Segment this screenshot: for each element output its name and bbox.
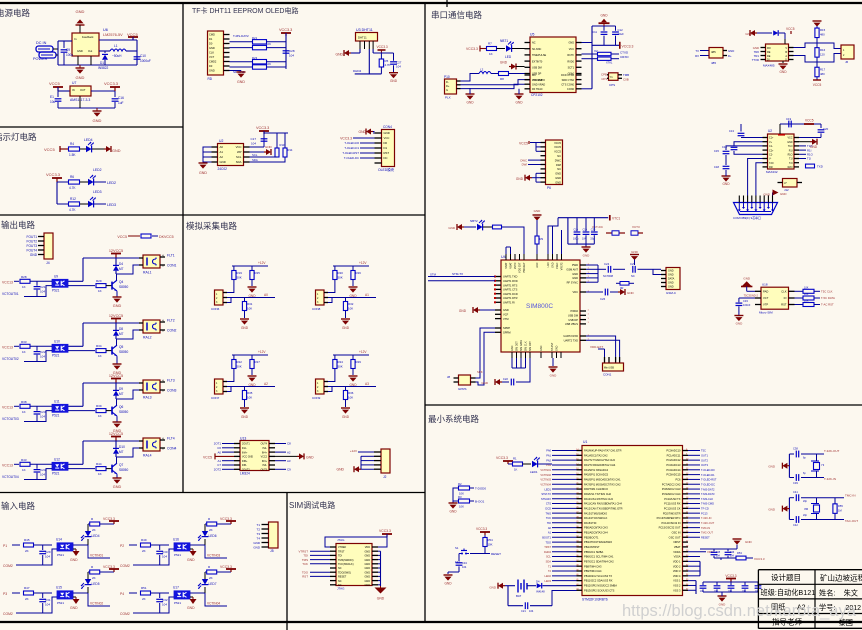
- wire led1 to pa8: [538, 463, 552, 465]
- svg-text:RD: RD: [208, 77, 213, 81]
- STM32 left pin row 7: [577, 478, 583, 480]
- svg-text:T-32K-OUT: T-32K-OUT: [824, 449, 840, 453]
- pullup resistor R52 2K: [207, 570, 217, 574]
- svg-text:SCL: SCL: [546, 555, 552, 559]
- diode D4 IN4148: [537, 583, 542, 588]
- OLED pin 3: [375, 142, 382, 144]
- divider resistor R20: [334, 266, 336, 270]
- MAX232 right pin 10: [794, 162, 799, 164]
- svg-text:IN3+: IN3+: [262, 460, 268, 463]
- power label VCC5 bottom of chain: [813, 79, 821, 81]
- usb pins wires: [457, 80, 461, 82]
- svg-text:OUT3: OUT3: [261, 469, 268, 472]
- gnd arrow 8M: [787, 508, 789, 510]
- P6 pin 6: [541, 164, 546, 166]
- svg-text:T5C3GND-2: T5C3GND-2: [744, 294, 759, 298]
- svg-text:PA3/T3 RDADCB/TA2 CH4: PA3/T3 RDADCB/TA2 CH4: [584, 463, 616, 467]
- SIM800C top pin 21: [536, 254, 538, 260]
- svg-text:R25: R25: [255, 271, 261, 275]
- svg-text:VCTIN04: VCTIN04: [540, 482, 551, 486]
- flyback diode D8 M7: [115, 323, 117, 330]
- svg-text:8M: 8M: [804, 507, 808, 511]
- svg-text:PWD: PWD: [572, 263, 578, 267]
- svg-text:R31: R31: [247, 302, 253, 306]
- vbat cap C22: [576, 218, 578, 232]
- STM32 right pin row 21: [683, 546, 689, 548]
- svg-text:R39: R39: [96, 404, 102, 408]
- svg-text:T-OLED-D0: T-OLED-D0: [344, 141, 359, 145]
- svg-text:2K: 2K: [92, 576, 96, 580]
- svg-text:SPRM: SPRM: [503, 331, 511, 335]
- opto emitter to ground: [73, 596, 76, 598]
- svg-text:LED3: LED3: [107, 203, 116, 207]
- svg-text:PC4/ADC14: PC4/ADC14: [666, 468, 681, 472]
- pin 4 of J5: [262, 537, 269, 539]
- svg-text:SDA: SDA: [546, 560, 552, 564]
- SIM800C left pin 5: [495, 293, 501, 295]
- svg-text:TDI: TDI: [547, 521, 551, 525]
- svg-text:B-OO1: B-OO1: [475, 500, 485, 504]
- svg-text:R51: R51: [141, 586, 147, 590]
- svg-text:S8050: S8050: [119, 468, 128, 472]
- svg-text:OLED模块: OLED模块: [378, 167, 395, 172]
- svg-text:CON1: CON1: [167, 264, 177, 268]
- svg-text:Q4: Q4: [119, 280, 123, 284]
- svg-text:VCC3.3: VCC3.3: [754, 557, 765, 561]
- sensor connector CON8: [316, 290, 325, 305]
- P6 pin 10: [541, 181, 546, 183]
- flyback diode D10 M7: [115, 441, 117, 448]
- svg-text:R26: R26: [356, 271, 362, 275]
- svg-text:STM-RX: STM-RX: [541, 497, 551, 501]
- svg-text:MAX232: MAX232: [766, 170, 778, 174]
- st ant gnd: [552, 358, 554, 366]
- vcc rail unit 4: [83, 440, 143, 442]
- 24C02 right pin 7: [244, 156, 250, 158]
- svg-text:ADC: ADC: [536, 262, 539, 267]
- left riser to opto collector: [82, 441, 84, 464]
- svg-text:RF TRA0: RF TRA0: [532, 88, 543, 91]
- ground below R31: [240, 318, 249, 320]
- svg-text:GND: GND: [253, 541, 261, 545]
- svg-text:A3: A3: [365, 382, 369, 386]
- svg-text:2K: 2K: [92, 528, 96, 532]
- DB9 pin 3: [747, 196, 749, 203]
- svg-text:GND: GND: [449, 510, 457, 514]
- svg-text:GND: GND: [241, 326, 249, 330]
- svg-text:GND: GND: [459, 309, 467, 313]
- CP2102 left pin 4: [525, 60, 531, 62]
- STM32 left pin row 14: [577, 512, 583, 514]
- crystal Y3 32.768k: [814, 463, 820, 470]
- ground cp2102 bottom: [515, 93, 524, 95]
- svg-text:GND: GND: [209, 46, 215, 50]
- svg-text:A1: A1: [548, 531, 552, 535]
- svg-text:C32: C32: [162, 598, 168, 602]
- svg-text:PC11/US3 RX: PC11/US3 RX: [664, 502, 681, 506]
- top rail +12V unit CON7: [232, 354, 268, 356]
- svg-text:2K: 2K: [209, 528, 213, 532]
- main crystal circuit 8M right: [788, 498, 790, 520]
- top rail +12V unit CON8: [333, 265, 369, 267]
- cap C45 vdd: [713, 549, 715, 551]
- pullup resistor R50 2K: [207, 522, 217, 526]
- svg-text:PC2/ADC12: PC2/ADC12: [666, 458, 681, 462]
- svg-text:LED4: LED4: [84, 138, 93, 142]
- LM324 vcc2 to gnd arrow: [275, 455, 297, 457]
- svg-text:VCTIN02: VCTIN02: [540, 473, 551, 477]
- left leg vbat: [567, 218, 569, 244]
- svg-text:1K: 1K: [22, 285, 26, 289]
- wire to opto input: [151, 592, 170, 594]
- base resistor R39 1K: [68, 410, 95, 412]
- svg-text:CMD2: CMD2: [209, 60, 217, 64]
- svg-text:NRST: NRST: [673, 540, 680, 544]
- svg-text:GND: GND: [220, 160, 226, 164]
- SIM800C left pin 12: [495, 331, 501, 333]
- DB9 pin 2: [743, 196, 745, 203]
- svg-text:D1: D1: [100, 61, 104, 65]
- svg-text:RESET: RESET: [701, 535, 710, 539]
- wire relay coil to collector node: [116, 265, 139, 274]
- svg-text:S8050: S8050: [119, 410, 128, 414]
- svg-text:D0: D0: [384, 141, 388, 145]
- svg-text:LED2: LED2: [93, 168, 102, 172]
- STM32 right pin row 26: [683, 570, 689, 572]
- svg-text:DWI: DWI: [522, 163, 528, 167]
- svg-text:PC8/ADC2 CH3: PC8/ADC2 CH3: [662, 487, 681, 491]
- svg-text:T-OLED-D1: T-OLED-D1: [701, 473, 715, 477]
- STM32 left pin row 23: [577, 556, 583, 558]
- svg-text:GND: GND: [241, 415, 249, 419]
- pullup resistor pair R23 R24: [230, 61, 253, 63]
- STM32 right pin row 22: [683, 551, 689, 553]
- svg-text:PC12/US3 CK: PC12/US3 CK: [664, 506, 681, 510]
- pin 2 of J4: [38, 240, 44, 242]
- wire LED4 to GND: [92, 148, 104, 150]
- svg-text:1K: 1K: [98, 289, 102, 293]
- wire led to pullup resistor: [204, 572, 206, 579]
- svg-text:4.7K: 4.7K: [69, 208, 76, 212]
- svg-text:A2: A2: [220, 155, 224, 159]
- svg-text:输入电路: 输入电路: [1, 501, 36, 511]
- svg-text:R2I: R2I: [769, 166, 773, 169]
- svg-text:T-AC RST: T-AC RST: [821, 303, 834, 307]
- svg-text:LED4: LED4: [92, 534, 100, 538]
- svg-text:IN4-: IN4-: [262, 447, 267, 450]
- svg-text:LED2: LED2: [107, 181, 116, 185]
- STM32 right pin row 6: [683, 474, 689, 476]
- wire resistor to opto pin1: [30, 463, 52, 465]
- svg-text:RAL2: RAL2: [143, 336, 152, 340]
- svg-text:TX: TX: [695, 49, 699, 53]
- STM32 right pin row 27: [683, 575, 689, 577]
- svg-text:GND: GND: [550, 374, 558, 378]
- svg-text:GND: GND: [552, 262, 555, 268]
- output net wire VCTIN02: [88, 593, 110, 606]
- svg-text:GND: GND: [668, 282, 674, 285]
- svg-text:GND: GND: [364, 576, 370, 579]
- STM32 right pin row 18: [683, 531, 689, 533]
- JTAG right pin 2: [372, 546, 378, 548]
- DB9 pin 4: [751, 196, 753, 203]
- lower resistor R32 10K: [345, 298, 347, 302]
- svg-text:U14: U14: [56, 538, 62, 542]
- svg-text:CP2102: CP2102: [531, 93, 543, 97]
- svg-text:LED7: LED7: [209, 582, 217, 586]
- svg-text:VCC3.3: VCC3.3: [379, 529, 391, 533]
- svg-text:T-OLED-RST: T-OLED-RST: [701, 478, 717, 482]
- STM32 right pin row 7: [683, 478, 689, 480]
- ground below R29: [349, 375, 358, 377]
- ground below max485: [782, 61, 784, 63]
- svg-text:RO: RO: [767, 47, 771, 50]
- svg-text:C45: C45: [716, 552, 721, 554]
- svg-text:GND: GND: [187, 606, 195, 610]
- antenna connector GSM-ANT: [666, 268, 680, 290]
- svg-text:Feedback: Feedback: [82, 35, 94, 39]
- svg-text:U4: U4: [501, 255, 506, 259]
- svg-text:VCC5: VCC5: [554, 141, 561, 145]
- svg-text:UART1 RXD: UART1 RXD: [503, 279, 518, 283]
- relay pin wires and contact labels: [139, 322, 143, 324]
- STM32 left pin row 17: [577, 527, 583, 529]
- svg-text:A1: A1: [220, 150, 224, 154]
- svg-text:U6: U6: [103, 28, 108, 32]
- STM32 left pin row 1: [577, 450, 583, 452]
- svg-text:DATA: DATA: [668, 278, 675, 281]
- svg-text:GND: GND: [466, 101, 474, 105]
- svg-text:MC: MC: [532, 74, 536, 77]
- TF pin 4: [224, 47, 230, 49]
- STM32 left pin row 6: [577, 474, 583, 476]
- SIM800C bottom pin 35: [540, 352, 542, 358]
- svg-text:GND: GND: [768, 465, 776, 469]
- MAX232 right pin 11: [794, 158, 799, 160]
- svg-text:R34: R34: [96, 344, 102, 348]
- series resistor R47 2K: [24, 591, 34, 595]
- wire U6 out to node: [99, 39, 137, 41]
- svg-text:C26: C26: [600, 297, 606, 301]
- svg-text:10K: 10K: [804, 293, 809, 296]
- svg-text:FLT1: FLT1: [167, 254, 175, 258]
- SIM800C left pin 10: [495, 318, 501, 320]
- svg-text:C10: C10: [583, 229, 588, 232]
- divider horizontal y=215: [0, 214, 425, 216]
- svg-text:R32: R32: [348, 302, 354, 306]
- svg-text:输出电路: 输出电路: [1, 220, 36, 230]
- svg-text:P3: P3: [3, 592, 7, 596]
- svg-text:Q7: Q7: [119, 463, 123, 467]
- divider horizontal y=127 power/led: [0, 126, 183, 128]
- vdd decoupling rail right of mcu: [700, 548, 737, 550]
- OLED pin 2: [375, 137, 382, 139]
- svg-text:R33: R33: [21, 340, 27, 344]
- svg-text:C21: C21: [521, 609, 526, 613]
- ground top cp2102: [601, 19, 607, 22]
- svg-text:模拟采集电路: 模拟采集电路: [186, 221, 238, 231]
- svg-text:S8050: S8050: [119, 285, 128, 289]
- svg-text:104: 104: [251, 142, 256, 146]
- svg-text:C24: C24: [40, 468, 46, 472]
- svg-text:PA15/JTDI: PA15/JTDI: [584, 521, 597, 525]
- svg-text:T-MS-DAT3: T-MS-DAT3: [701, 492, 715, 496]
- CP2102 left pin 3: [525, 54, 531, 56]
- 485 bus loop wires: [794, 43, 818, 48]
- STM32 left pin row 10: [577, 493, 583, 495]
- vcc rail unit 1: [83, 257, 143, 259]
- svg-text:GND: GND: [77, 49, 83, 53]
- svg-text:GND: GND: [70, 558, 78, 562]
- svg-text:R16: R16: [820, 48, 826, 52]
- svg-text:VCTOUT03: VCTOUT03: [2, 417, 19, 421]
- vcc rail unit 3: [83, 382, 143, 384]
- svg-text:SIM调试电路: SIM调试电路: [289, 500, 335, 510]
- svg-text:10K: 10K: [348, 396, 353, 400]
- svg-text:CON9: CON9: [312, 396, 321, 400]
- CP2102 right pin 24: [576, 66, 582, 68]
- STM32 left pin row 12: [577, 503, 583, 505]
- net label T32K OUT: [822, 453, 824, 455]
- wire battery to diode: [527, 585, 536, 587]
- svg-text:T-5C DATA: T-5C DATA: [821, 296, 835, 300]
- svg-text:CTS CON0: CTS CON0: [561, 83, 574, 86]
- capacitor C18 max232 low: [725, 160, 727, 165]
- wire U6 pin2 right: [99, 50, 110, 52]
- svg-text:DWC: DWC: [520, 158, 527, 162]
- svg-text:U3 DHT11: U3 DHT11: [356, 28, 373, 32]
- svg-text:10K: 10K: [266, 42, 271, 46]
- svg-text:104: 104: [162, 555, 167, 559]
- MAX232 right pin 16: [794, 137, 799, 139]
- STM32 right pin row 25: [683, 565, 689, 567]
- svg-text:GND: GND: [342, 415, 350, 419]
- svg-text:GND: GND: [306, 456, 314, 460]
- svg-text:10K: 10K: [804, 287, 809, 290]
- svg-text:FLT3: FLT3: [167, 379, 175, 383]
- svg-text:U13: U13: [240, 437, 246, 441]
- vcc rail unit 2: [83, 322, 143, 324]
- P6 pin 7: [541, 168, 546, 170]
- MAX232 left pin 7: [763, 162, 768, 164]
- TF pin 6: [224, 56, 230, 58]
- svg-text:NBT2: NBT2: [470, 219, 478, 223]
- emitter wire to ground: [116, 416, 118, 422]
- SIM800C right pin UART2 TXD: [580, 339, 586, 341]
- svg-text:STM32F103RBT6: STM32F103RBT6: [582, 598, 608, 602]
- LM324 right pin 8: [269, 468, 275, 470]
- lower resistor R31 10K: [244, 298, 246, 302]
- SIM800C left pin 1: [495, 276, 501, 278]
- LM324 left pin 1: [234, 443, 240, 445]
- svg-text:GSM ANT: GSM ANT: [566, 268, 578, 272]
- svg-text:VCC3.3: VCC3.3: [279, 28, 292, 32]
- sensor connector CON6: [215, 290, 224, 305]
- svg-text:2OUT1: 2OUT1: [242, 443, 250, 446]
- svg-text:VCC5: VCC5: [554, 145, 561, 149]
- svg-text:J12: J12: [784, 188, 789, 192]
- svg-text:VCC: VCC: [787, 137, 792, 140]
- SIM800C top pin 18: [514, 254, 516, 260]
- svg-text:D+: D+: [728, 54, 732, 58]
- svg-text:D+: D+: [446, 84, 450, 88]
- bottom rail AMS1117 stage: [58, 107, 115, 109]
- capacitor C12 10uF: [615, 26, 617, 31]
- relay RAL4: [143, 438, 160, 451]
- svg-text:GND: GND: [377, 597, 385, 601]
- JTAG left pin 3: [330, 550, 336, 552]
- TF card socket J3: [208, 31, 224, 75]
- svg-text:GND: GND: [515, 101, 523, 105]
- svg-text:NC: NC: [338, 580, 342, 583]
- svg-text:50K: 50K: [237, 365, 242, 369]
- connector pin wires: [223, 381, 227, 383]
- svg-text:LED5: LED5: [92, 582, 100, 586]
- SIM800C right pin RF SYNC: [580, 281, 586, 283]
- svg-text:U2: U2: [768, 129, 772, 133]
- svg-text:R29: R29: [356, 360, 362, 364]
- svg-text:104: 104: [462, 565, 467, 569]
- svg-text:C33: C33: [743, 299, 748, 303]
- svg-text:GND: GND: [364, 571, 370, 574]
- svg-text:VCC13: VCC13: [2, 463, 13, 467]
- svg-text:R36: R36: [348, 391, 354, 395]
- svg-text:DCD: DCD: [545, 507, 551, 511]
- CP2102 right pin 23: [576, 73, 582, 75]
- svg-text:C8: C8: [287, 442, 291, 446]
- DB9 pin 7: [763, 196, 765, 203]
- svg-text:SDA: SDA: [236, 160, 242, 164]
- svg-text:T2I: T2I: [789, 162, 793, 165]
- svg-text:PC1/ADC11: PC1/ADC11: [667, 453, 681, 457]
- jtag left net labels: [310, 550, 330, 552]
- wire resistor to opto pin1: [30, 405, 52, 407]
- svg-text:D0: D0: [209, 42, 213, 46]
- svg-text:1uF: 1uF: [118, 101, 124, 105]
- JTAG left pin 1: [330, 546, 336, 548]
- MicroSIM right pin 5: [789, 297, 795, 299]
- input filter cap: [36, 406, 38, 411]
- STM32 right pin row 1: [683, 450, 689, 452]
- ant cap C24 NC: [598, 268, 606, 270]
- wire to VCC3.3: [100, 571, 114, 573]
- JTAG right pin 18: [372, 580, 378, 582]
- svg-text:120: 120: [820, 53, 825, 57]
- STM32 right pin row 4: [683, 464, 689, 466]
- ground below R32: [341, 318, 350, 320]
- svg-text:PA5/SPI1 SCKADC5: PA5/SPI1 SCKADC5: [584, 473, 609, 477]
- svg-text:R44: R44: [96, 462, 102, 466]
- collector wire: [116, 339, 118, 346]
- vdd ext wire to CON1: [604, 349, 606, 357]
- svg-text:R53: R53: [737, 551, 742, 555]
- relay RAL1: [143, 255, 160, 268]
- filter cap C32 104: [159, 593, 161, 598]
- svg-text:PA12/CAN TX/USBDP/TIM1 ETR: PA12/CAN TX/USBDP/TIM1 ETR: [584, 506, 623, 510]
- svg-text:D3: D3: [209, 64, 213, 68]
- capacitor E1 10uF: [57, 91, 59, 97]
- STM32 left pin row 13: [577, 507, 583, 509]
- vbat cap C23: [585, 218, 587, 232]
- svg-text:U7: U7: [72, 81, 76, 85]
- stm32 osc pins wires: [688, 517, 700, 519]
- svg-text:指示灯电路: 指示灯电路: [0, 132, 37, 142]
- STM32 right pin row 9: [683, 488, 689, 490]
- svg-text:GND: GND: [253, 545, 261, 549]
- P6 gnd wires: [536, 172, 541, 174]
- resistor R54 reset: [484, 535, 486, 537]
- svg-text:R21: R21: [252, 36, 258, 40]
